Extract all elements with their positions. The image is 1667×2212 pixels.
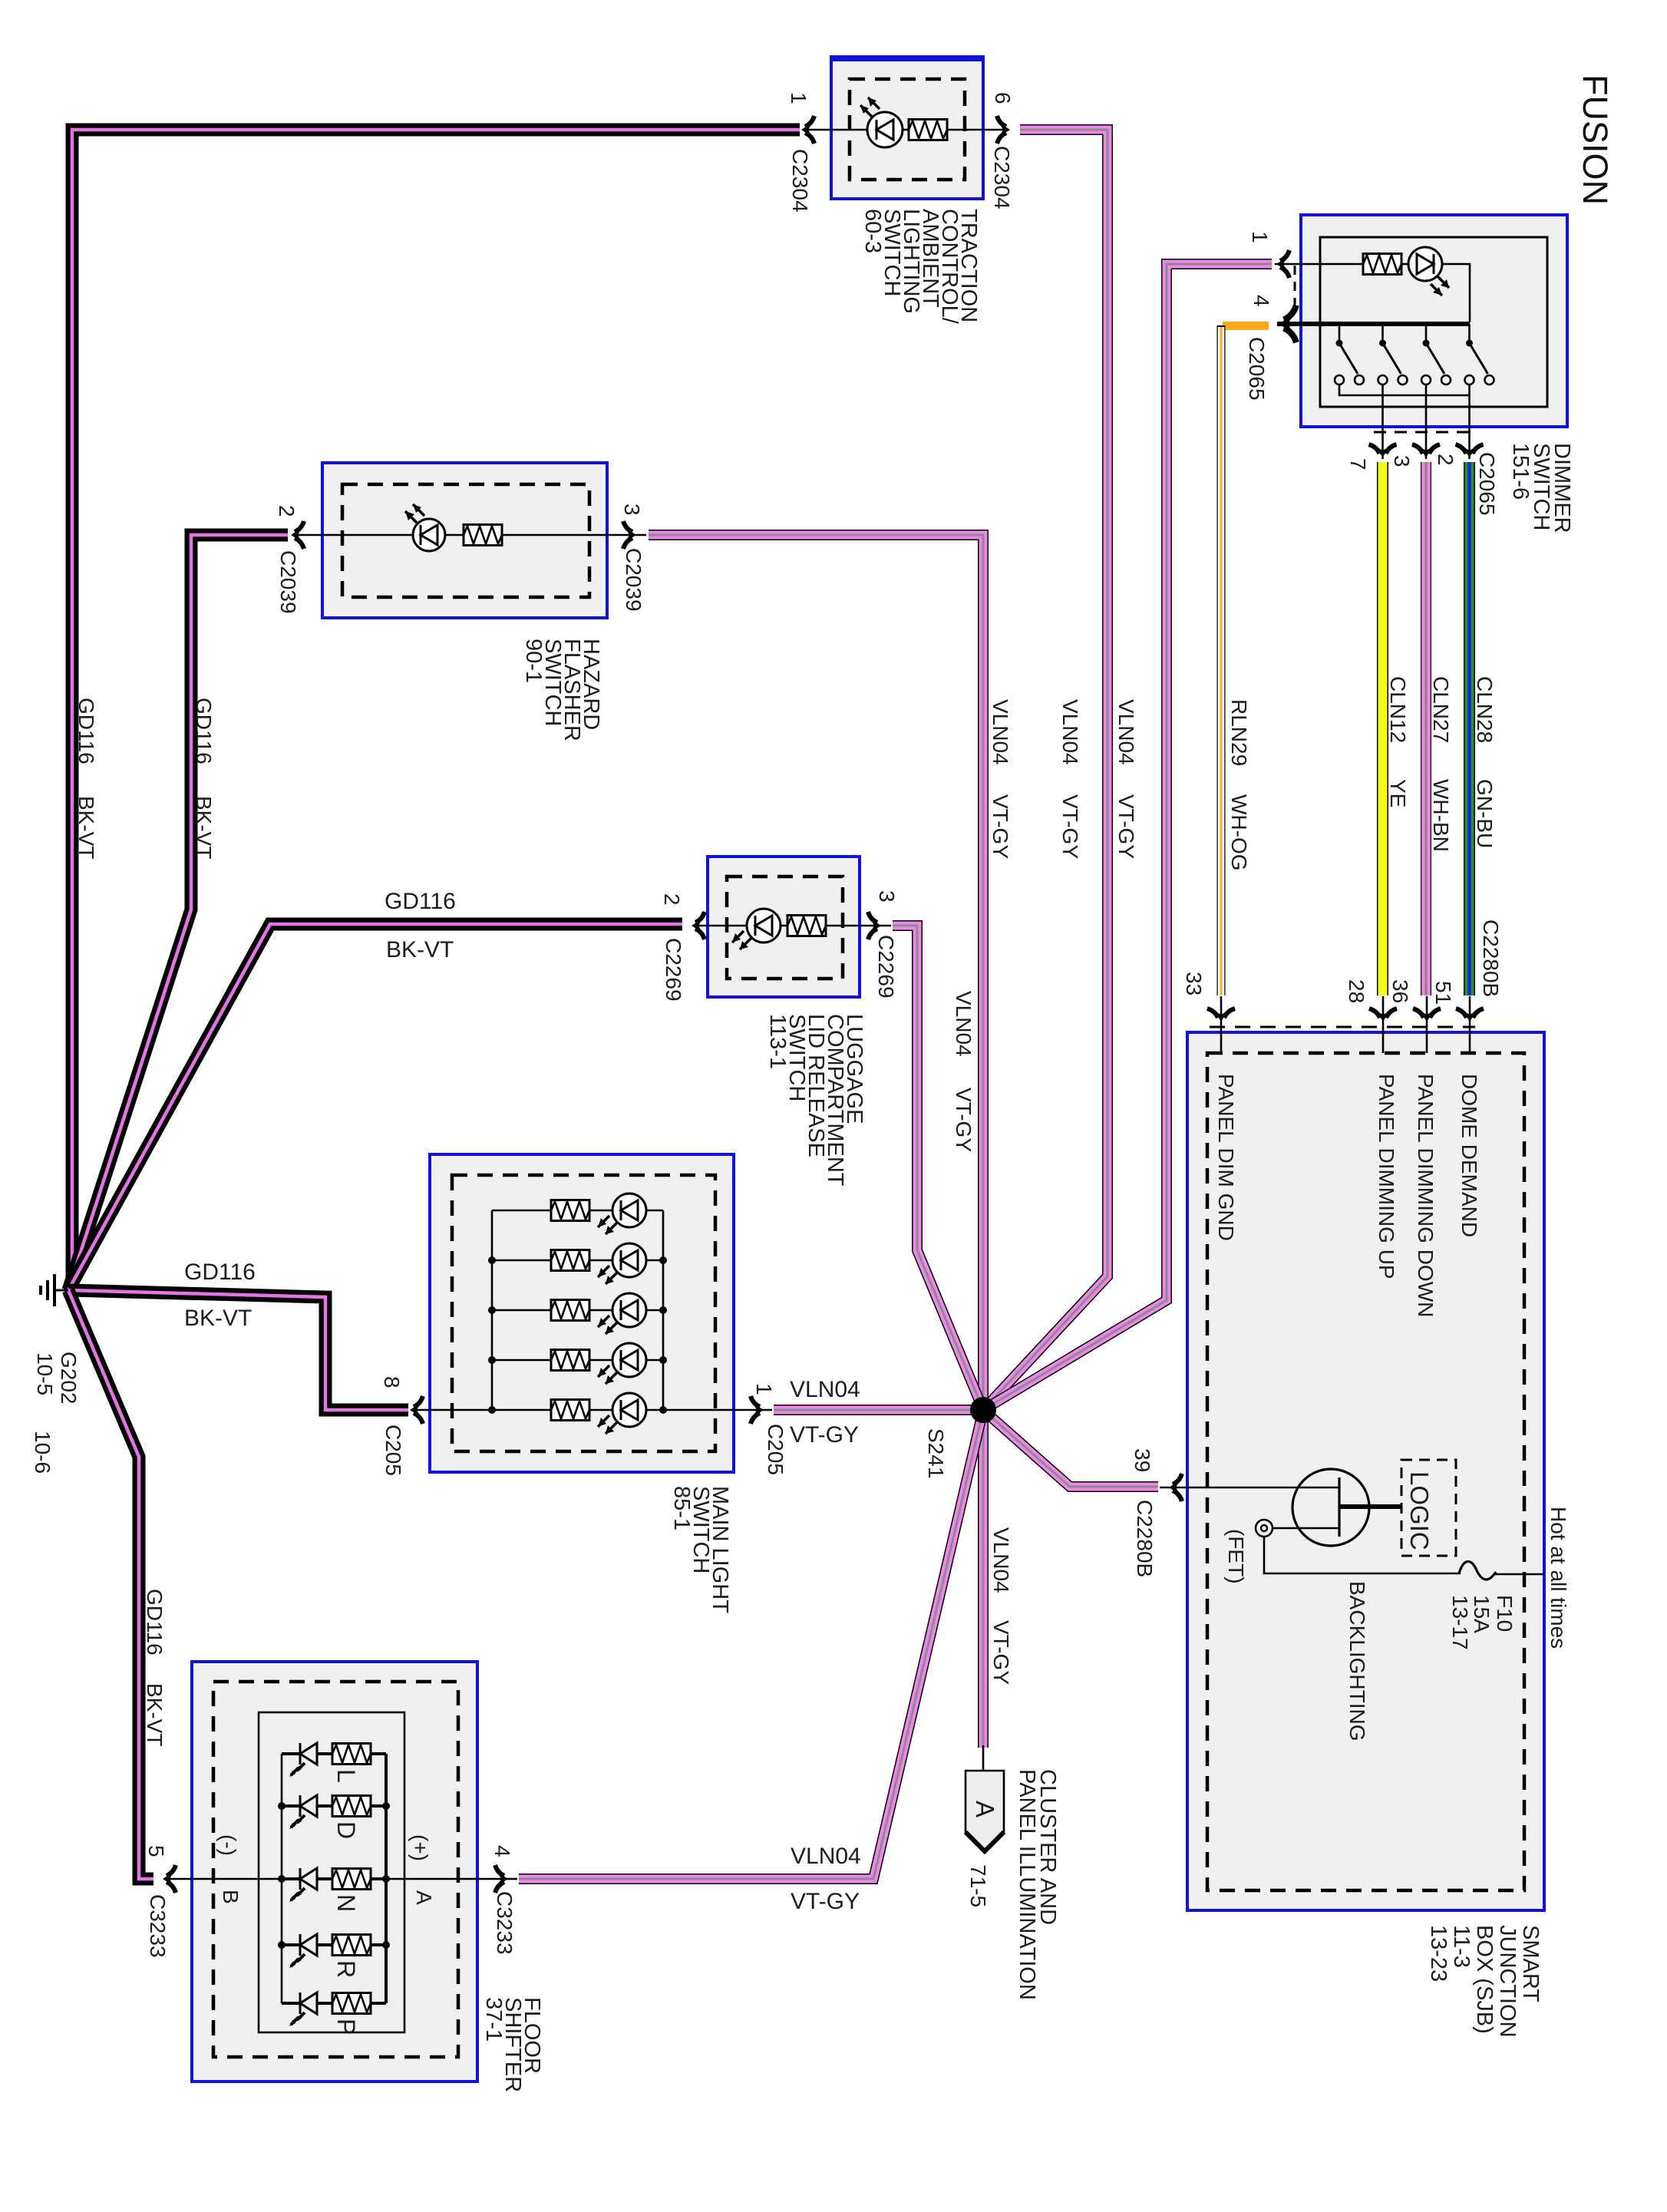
svg-text:10-6: 10-6 <box>31 1431 54 1474</box>
connector arrow floor shifter pin 5 C3233 <box>163 1865 176 1893</box>
svg-text:C2269: C2269 <box>874 935 898 999</box>
svg-text:PANEL ILLUMINATION: PANEL ILLUMINATION <box>1015 1769 1039 2000</box>
svg-text:C2304: C2304 <box>990 146 1014 210</box>
svg-text:36: 36 <box>1388 979 1412 1003</box>
svg-text:WH-BN: WH-BN <box>1429 779 1453 852</box>
pin stub 36 (SJB) <box>1426 996 1428 1053</box>
LED dimmer indicator LED <box>1408 247 1449 295</box>
svg-text:CLN12: CLN12 <box>1386 676 1410 743</box>
FET transistor (SJB backlighting driver) <box>1273 1469 1401 1546</box>
LED luggage indicator LED <box>732 909 781 949</box>
switch pole 1 (dimmer switch) <box>1335 324 1364 385</box>
svg-text:28: 28 <box>1345 979 1368 1003</box>
wire VLN04 S241 to SJB pin39 (VT-GY violet/gray) <box>983 1410 1158 1487</box>
svg-text:11-3: 11-3 <box>1449 1925 1474 1968</box>
svg-text:1: 1 <box>1248 231 1272 243</box>
svg-text:85-1: 85-1 <box>669 1486 694 1530</box>
svg-text:90-1: 90-1 <box>521 639 546 683</box>
label floor shifter 37-1 <box>481 1997 544 2092</box>
connector arrow SJB pin 39 arrow <box>1169 1474 1182 1501</box>
pin 4 supply bus (dimmer switch) <box>1277 322 1470 326</box>
resistor resistor branch 5 (main light) <box>551 1400 589 1421</box>
switch pole 3 (dimmer switch) <box>1421 324 1451 385</box>
wire GD116 hazard pin2 to G202 (BK-VT black/violet) <box>68 535 288 1290</box>
svg-text:PANEL DIMMING UP: PANEL DIMMING UP <box>1375 1074 1398 1279</box>
svg-text:VLN04: VLN04 <box>952 991 975 1057</box>
wire resistor to pin3 (hazard) <box>502 534 646 536</box>
svg-text:YE: YE <box>1386 779 1410 807</box>
connector arrow SJB pin 36 arrow <box>1413 1009 1441 1022</box>
svg-text:JUNCTION: JUNCTION <box>1495 1925 1520 2038</box>
dashed inner box luggage switch <box>727 877 843 979</box>
pin stub 28 (SJB) <box>1382 996 1385 1053</box>
wire pin2 to LED (hazard) <box>292 534 413 536</box>
svg-text:C2280B: C2280B <box>1133 1500 1157 1577</box>
svg-text:LOGIC: LOGIC <box>1405 1471 1434 1550</box>
component box smart junction box (SJB) <box>1187 1032 1544 1910</box>
svg-text:15A: 15A <box>1470 1595 1494 1633</box>
svg-text:BK-VT: BK-VT <box>386 937 454 962</box>
wire fuse to battery feed (SJB) <box>1494 1573 1544 1576</box>
component box luggage compartment lid release switch 113-1 <box>708 857 860 997</box>
svg-text:PANEL DIM GND: PANEL DIM GND <box>1214 1074 1238 1241</box>
svg-text:VLN04: VLN04 <box>791 1844 861 1869</box>
resistor resistor D (floor shifter) <box>332 1796 371 1817</box>
svg-text:151-6: 151-6 <box>1508 443 1533 500</box>
svg-text:N: N <box>332 1894 360 1912</box>
label hazard flasher switch 90-1 <box>521 639 603 741</box>
wire VLN04 S241 to floor shifter pin4 (VT-GY violet/gray) <box>519 1410 983 1879</box>
resistor resistor branch 1 (main light) <box>551 1200 589 1221</box>
wire pin1 stub (main light) <box>663 1409 772 1411</box>
svg-text:C2039: C2039 <box>276 550 300 614</box>
svg-text:4: 4 <box>490 1845 514 1857</box>
svg-text:3: 3 <box>620 503 644 516</box>
svg-text:C2039: C2039 <box>622 548 645 612</box>
LOGIC dashed box (SJB) <box>1401 1460 1456 1556</box>
wire pin5 stub (floor shifter) <box>164 1878 282 1880</box>
component box hazard flasher switch 90-1 <box>322 463 607 618</box>
dashed inner box hazard switch <box>342 484 589 597</box>
connector arrow dimmer pin 3 C2065 <box>1412 444 1440 457</box>
svg-text:113-1: 113-1 <box>765 1014 790 1069</box>
svg-text:39: 39 <box>1131 1448 1154 1472</box>
svg-text:37-1: 37-1 <box>481 1997 506 2042</box>
switch pole 2 (dimmer switch) <box>1378 324 1408 385</box>
svg-text:1: 1 <box>752 1383 776 1395</box>
junction dot (main light bus) <box>488 1256 496 1264</box>
label cluster and panel illumination <box>1015 1769 1060 2000</box>
wire GD116 G202 to main light pin8 (BK-VT black/violet) <box>68 1290 408 1410</box>
wire switch3 to pin3 (dimmer) <box>1425 385 1428 459</box>
svg-text:1: 1 <box>787 92 810 104</box>
label luggage compartment lid release switch 113-1 <box>765 1014 867 1187</box>
svg-text:GD116: GD116 <box>74 698 98 764</box>
svg-text:GD116: GD116 <box>184 1260 256 1285</box>
resistor resistor N (floor shifter) <box>332 1869 371 1890</box>
resistor dimmer LED resistor <box>1363 254 1401 275</box>
component box main light switch 85-1 <box>430 1154 734 1472</box>
svg-text:VLN04: VLN04 <box>790 1377 860 1402</box>
inner solid box (dimmer switch) <box>1320 237 1547 407</box>
wire GD116 luggage pin2 to G202 (BK-VT black/violet) <box>68 924 682 1290</box>
wire resistor to LED (dimmer) <box>1401 263 1408 266</box>
wire stub to connector A <box>982 1745 985 1771</box>
svg-text:C2280B: C2280B <box>1479 919 1503 997</box>
svg-text:33: 33 <box>1182 972 1206 995</box>
svg-text:BK-VT: BK-VT <box>192 796 216 859</box>
dashed inner box SJB internals <box>1207 1053 1524 1890</box>
wire VLN04 luggage pin3 to S241 (VT-GY violet/gray) <box>893 926 983 1410</box>
off-page connector A (cluster and panel illumination) <box>966 1771 1004 1851</box>
svg-text:SMART: SMART <box>1518 1925 1543 2002</box>
svg-text:GN-BU: GN-BU <box>1473 779 1497 848</box>
svg-text:2: 2 <box>275 505 299 517</box>
junction dot (main light bus) <box>488 1306 496 1314</box>
LED LED branch 2 (main light) <box>598 1243 646 1284</box>
svg-text:C2269: C2269 <box>662 938 685 1002</box>
wire LED to resistor (luggage) <box>781 925 787 927</box>
svg-text:B: B <box>219 1890 243 1904</box>
connector arrow luggage pin 2 C2269 <box>692 912 705 939</box>
svg-text:P: P <box>332 2019 360 2035</box>
label main light switch 85-1 <box>669 1486 732 1613</box>
dashed connector line C2280B (SJB top) <box>1210 1026 1475 1028</box>
svg-text:VT-GY: VT-GY <box>790 1422 859 1448</box>
connector arrow traction pin 1 C2304 <box>801 116 814 144</box>
wire CLN27 WH-BN dimmer pin3 to SJB 36 <box>1421 462 1431 995</box>
branch wire P (floor shifter) <box>282 2002 386 2005</box>
fuse F10 15A <box>1459 1561 1496 1579</box>
connector arrow SJB pin 51 arrow <box>1456 1009 1484 1022</box>
svg-text:C2065: C2065 <box>1475 452 1499 516</box>
resistor resistor branch 2 (main light) <box>551 1250 589 1271</box>
dashed connector line C2065 (dimmer outputs) <box>1374 431 1477 434</box>
wire pin4 stub (floor shifter) <box>386 1878 517 1880</box>
wire RLN29 WH-OG (white/orange) dimmer pin4 to SJB 33 <box>1221 322 1269 995</box>
dashed inner box floor shifter <box>213 1682 458 2057</box>
ground symbol G202 <box>41 1274 68 1306</box>
switch common link line (dimmer) <box>1339 385 1470 395</box>
wire GD116 G202 to floor shifter pin5 (BK-VT black/violet) <box>68 1290 153 1879</box>
wire CLN12 YE (yellow) dimmer pin7 to SJB 28 <box>1377 462 1388 995</box>
svg-text:VLN04: VLN04 <box>989 699 1012 765</box>
wire VLN04 traction pin6 to S241 (VT-GY violet/gray) <box>983 130 1107 1410</box>
component box traction control/ambient lighting switch 60-3 <box>831 55 983 199</box>
left bus (floor shifter) <box>281 1754 283 2003</box>
connector arrow SJB pin 33 arrow <box>1207 1009 1235 1022</box>
wire pin2 to LED (luggage) <box>693 925 748 927</box>
connector arrow dimmer pin 7 C2065 <box>1369 444 1397 457</box>
wire switch2 to pin7 (dimmer) <box>1381 385 1384 459</box>
wire VLN04 hazard pin3 to S241 (VT-GY violet/gray) <box>649 535 983 1410</box>
pin stub 33 (SJB) <box>1220 996 1223 1053</box>
svg-text:2: 2 <box>1434 454 1457 466</box>
svg-text:L: L <box>332 1769 360 1783</box>
connector arrow SJB pin 28 arrow <box>1369 1009 1397 1022</box>
svg-text:10-5: 10-5 <box>33 1352 57 1395</box>
branch wire N (floor shifter) <box>282 1877 386 1880</box>
wire LED to bus (dimmer) <box>1442 264 1470 322</box>
svg-text:VT-GY: VT-GY <box>791 1889 860 1914</box>
connector arrow hazard pin 3 C2039 <box>623 521 636 549</box>
svg-text:BACKLIGHTING: BACKLIGHTING <box>1345 1581 1369 1741</box>
svg-text:VT-GY: VT-GY <box>1114 794 1138 859</box>
svg-text:60-3: 60-3 <box>860 209 885 253</box>
pin stub 51 (SJB) <box>1469 996 1471 1053</box>
svg-text:VT-GY: VT-GY <box>989 794 1012 859</box>
connector arrow luggage pin 3 C2269 <box>868 912 881 939</box>
right bus (floor shifter) <box>385 1754 388 2003</box>
LED LED branch 5 (main light) <box>598 1393 646 1434</box>
resistor hazard LED resistor <box>464 525 502 546</box>
wire switch4 stub (dimmer) <box>1468 385 1471 395</box>
wire VLN04 main light pin1 to S241 (VT-GY violet/gray) <box>774 1405 983 1415</box>
LED LED R (floor shifter) <box>289 1934 317 1968</box>
label dimmer switch 151-6 <box>1508 443 1574 533</box>
svg-text:7: 7 <box>1346 458 1370 470</box>
svg-text:VT-GY: VT-GY <box>1058 794 1082 859</box>
LED LED D (floor shifter) <box>289 1795 317 1829</box>
svg-text:DOME DEMAND: DOME DEMAND <box>1457 1074 1481 1237</box>
resistor resistor L (floor shifter) <box>332 1744 371 1765</box>
svg-text:C3233: C3233 <box>493 1891 517 1955</box>
svg-text:VT-GY: VT-GY <box>952 1088 975 1152</box>
wire CLN28 GN-BU (green/blue) dimmer pin2 to SJB 51 <box>1464 462 1475 995</box>
left bus (main light switch) <box>491 1210 493 1410</box>
svg-text:8: 8 <box>380 1376 404 1388</box>
resistor resistor branch 4 (main light) <box>551 1350 589 1371</box>
connector arrow dimmer pin 2 C2065 <box>1456 444 1484 457</box>
svg-text:A: A <box>971 1801 999 1817</box>
svg-text:3: 3 <box>1390 455 1414 467</box>
LED LED N (floor shifter) <box>289 1868 317 1902</box>
svg-text:G202: G202 <box>57 1352 81 1405</box>
svg-text:D: D <box>332 1821 360 1839</box>
svg-text:BK-VT: BK-VT <box>143 1683 167 1746</box>
FET source terminal circle <box>1256 1520 1273 1537</box>
svg-text:PANEL DIMMING DOWN: PANEL DIMMING DOWN <box>1414 1074 1438 1317</box>
svg-text:CLN28: CLN28 <box>1473 676 1497 743</box>
resistor traction LED resistor <box>909 120 947 140</box>
svg-text:6: 6 <box>991 92 1015 104</box>
wire resistor to pin6 (traction) <box>947 129 1008 131</box>
branch wire 4 (main light switch) <box>492 1359 663 1362</box>
svg-text:4: 4 <box>1249 295 1273 307</box>
wire VLN04 dimmer pin1 to S241 (VT-GY violet/gray) <box>983 264 1272 1410</box>
svg-text:(FET): (FET) <box>1224 1529 1248 1584</box>
junction dot (main light bus) <box>488 1356 496 1364</box>
branch wire R (floor shifter) <box>282 1943 386 1946</box>
dashed inner box main light switch <box>452 1175 715 1451</box>
right bus (main light switch) <box>662 1210 665 1410</box>
switch pole 4 (dimmer switch) <box>1465 324 1494 385</box>
svg-text:F10: F10 <box>1493 1595 1517 1632</box>
dashed inner box traction switch <box>850 79 965 180</box>
svg-text:(-): (-) <box>216 1834 240 1856</box>
wire switch4 to pin2 (dimmer) <box>1468 395 1471 459</box>
svg-text:RLN29: RLN29 <box>1227 699 1251 766</box>
resistor resistor P (floor shifter) <box>332 1993 371 2014</box>
splice S241 <box>970 1397 996 1423</box>
svg-text:13-23: 13-23 <box>1426 1925 1451 1982</box>
LED LED branch 1 (main light) <box>598 1193 646 1234</box>
wire pin8 stub (main light) <box>411 1409 492 1411</box>
svg-text:C2304: C2304 <box>788 149 812 213</box>
svg-text:BK-VT: BK-VT <box>74 796 98 859</box>
connector arrow dimmer pin 4 C2065 (large) <box>1279 305 1296 343</box>
svg-text:13-17: 13-17 <box>1448 1595 1472 1650</box>
svg-text:BOX (SJB): BOX (SJB) <box>1472 1925 1497 2034</box>
junction dot (floor shifter bus) <box>278 1941 286 1949</box>
component box floor shifter 37-1 <box>192 1662 477 2082</box>
resistor resistor R (floor shifter) <box>332 1935 371 1956</box>
svg-text:FUSION: FUSION <box>1576 74 1615 205</box>
svg-text:S241: S241 <box>924 1428 948 1478</box>
label traction control/ambient lighting switch 60-3 <box>860 209 981 325</box>
svg-text:5: 5 <box>144 1845 168 1857</box>
svg-text:VLN04: VLN04 <box>989 1527 1013 1593</box>
branch wire 1 (main light switch) <box>492 1210 663 1212</box>
branch wire L (floor shifter) <box>282 1752 386 1755</box>
LED LED branch 4 (main light) <box>598 1343 646 1384</box>
svg-text:VLN04: VLN04 <box>1114 699 1138 765</box>
junction dot (floor shifter bus) <box>278 1875 286 1883</box>
junction dot (floor shifter bus) <box>278 1802 286 1810</box>
svg-text:GD116: GD116 <box>385 889 456 914</box>
connector arrow dimmer pin 1 C2065 <box>1276 250 1289 278</box>
LED LED branch 3 (main light) <box>598 1293 646 1334</box>
connector arrow hazard pin 2 C2039 <box>291 521 304 549</box>
svg-text:GD116: GD116 <box>192 698 216 764</box>
connector arrow traction pin 6 C2304 <box>997 116 1010 144</box>
dashed connector link pin1-pin4 (C2065) <box>1294 266 1296 313</box>
resistor resistor branch 3 (main light) <box>551 1300 589 1321</box>
svg-text:BK-VT: BK-VT <box>184 1306 252 1331</box>
connector arrow main light pin 8 C205 <box>410 1396 423 1424</box>
svg-text:71-5: 71-5 <box>966 1864 990 1907</box>
branch wire 2 (main light switch) <box>492 1260 663 1262</box>
LED LED L (floor shifter) <box>289 1743 317 1777</box>
wire LED to resistor (traction) <box>903 129 909 131</box>
svg-text:51: 51 <box>1431 981 1455 1005</box>
svg-text:VLN04: VLN04 <box>1058 699 1082 765</box>
wire pin39 stub outside SJB <box>1160 1487 1187 1489</box>
wire VLN04 S241 to connector A (VT-GY violet/gray) <box>978 1410 989 1748</box>
component box dimmer switch 151-6 <box>1301 215 1567 427</box>
svg-text:C205: C205 <box>764 1424 787 1475</box>
wire GD116 traction pin1 to G202 (BK-VT black/violet) <box>68 130 800 1290</box>
svg-text:Hot at all times: Hot at all times <box>1547 1507 1570 1649</box>
connector arrow main light pin 1 C205 <box>751 1396 764 1424</box>
svg-text:GD116: GD116 <box>143 1589 167 1656</box>
svg-text:3: 3 <box>875 890 899 903</box>
connector arrow floor shifter pin 4 C3233 <box>495 1865 508 1893</box>
wire FET source to fuse (SJB) <box>1264 1537 1461 1573</box>
svg-text:A: A <box>412 1890 436 1905</box>
svg-text:2: 2 <box>660 893 684 906</box>
svg-text:VT-GY: VT-GY <box>989 1620 1013 1685</box>
svg-text:C2065: C2065 <box>1245 337 1269 401</box>
svg-text:CLN27: CLN27 <box>1429 676 1453 743</box>
svg-text:(+): (+) <box>408 1834 432 1861</box>
svg-text:C205: C205 <box>381 1425 405 1476</box>
LED LED P (floor shifter) <box>289 1992 317 2026</box>
branch wire D (floor shifter) <box>282 1804 386 1808</box>
svg-text:C3233: C3233 <box>146 1894 170 1958</box>
branch wire 5 (main light switch) <box>492 1409 663 1411</box>
LED hazard indicator LED <box>405 504 445 551</box>
junction dot (main light bus) <box>488 1406 496 1414</box>
resistor luggage LED resistor <box>787 916 826 936</box>
branch wire 3 (main light switch) <box>492 1309 663 1312</box>
LED traction indicator LED <box>860 97 903 147</box>
wire pin1 to resistor (dimmer) <box>1275 263 1364 266</box>
inner solid box (floor shifter) <box>259 1712 404 2032</box>
svg-text:R: R <box>332 1960 360 1978</box>
label smart junction box (SJB) 11-3 13-23 <box>1426 1925 1543 2038</box>
wire pin1 to LED (traction) <box>803 129 868 131</box>
wire pin39 to FET gate (SJB) <box>1187 1487 1339 1489</box>
wire LED to resistor (hazard) <box>445 534 464 536</box>
wire resistor to pin3 (luggage) <box>826 925 891 927</box>
svg-text:WH-OG: WH-OG <box>1227 794 1251 871</box>
